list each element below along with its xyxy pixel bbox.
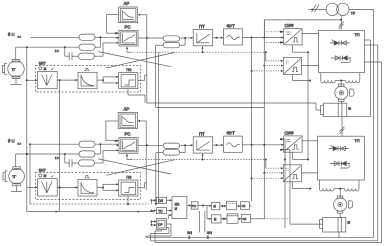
node U-set 2 xyxy=(8,139,22,146)
wire vertical K xyxy=(284,139,286,228)
tachogenerator TG2 xyxy=(3,167,24,186)
wire SIF2 output to TP2 xyxy=(302,140,318,142)
wire machine2 bottom xyxy=(338,232,340,238)
wire TO to OR xyxy=(167,210,173,212)
wire R1b to RS2 xyxy=(95,143,119,146)
capacitor C2 xyxy=(65,154,78,167)
wire tacho feedback 2 xyxy=(16,153,79,155)
wire AND2 to AMP2 xyxy=(221,218,227,220)
wire R1 to RS1 xyxy=(95,36,119,39)
block AR1 (АР) xyxy=(119,1,138,23)
filter F1 xyxy=(78,68,97,88)
svg-text:ФУТ: ФУТ xyxy=(227,23,236,28)
wire PT1 to FUT1 xyxy=(213,37,224,39)
svg-text:ЭН: ЭН xyxy=(187,231,192,235)
svg-text:ϑ U: ϑ U xyxy=(8,139,14,144)
svg-text:ПЗ: ПЗ xyxy=(126,68,132,72)
wire SIF1b inputs xyxy=(251,51,284,72)
svg-text:РС: РС xyxy=(125,132,131,137)
block BIT1 (БИТ dashed) xyxy=(35,61,140,92)
svg-text:ОЛ: ОЛ xyxy=(243,217,247,221)
wire PZ1 bottom xyxy=(128,89,145,103)
wire AMP1 to OUT1 xyxy=(237,205,241,207)
block OR (ИЛИ) xyxy=(172,197,187,219)
wire SR inputs xyxy=(151,220,157,226)
block FUT2 (ФУТ) xyxy=(224,131,243,153)
block OL xyxy=(156,197,166,203)
node K3 label xyxy=(55,49,59,53)
wire SIF1b bottom xyxy=(293,75,311,82)
wire OUT2 right xyxy=(251,218,291,220)
wire AR1 feedback left xyxy=(107,15,120,35)
wire SR to OR xyxy=(169,214,173,219)
block TP2 (ТП) xyxy=(318,136,365,180)
wire PZ2 bottom xyxy=(127,196,129,205)
block TO xyxy=(156,208,166,214)
block SIF1 (СИФ) xyxy=(284,23,302,45)
motor M2 xyxy=(334,189,353,214)
block AMP2 xyxy=(227,214,238,224)
resistor R3 xyxy=(79,53,95,59)
svg-text:ТГ: ТГ xyxy=(12,68,16,72)
block OUT2 xyxy=(242,214,251,222)
svg-text:РС: РС xyxy=(125,24,131,29)
resistor R1b xyxy=(79,141,95,147)
svg-text:Ш: Ш xyxy=(348,106,351,110)
wire BIT2 input xyxy=(27,186,38,188)
resistor R2b xyxy=(79,151,95,157)
wire bottom bus 1 xyxy=(146,237,374,239)
wire mid bus xyxy=(156,45,265,107)
svg-text:2: 2 xyxy=(207,235,209,239)
wire RS2 bottom input xyxy=(126,154,131,160)
wire machine1 right xyxy=(347,40,371,117)
block FUT1 (ФУТ) xyxy=(224,23,243,45)
wire RO fork xyxy=(198,205,212,220)
svg-text:И: И xyxy=(175,207,178,211)
block AMP1 xyxy=(227,201,237,210)
block PT1 (ПТ) xyxy=(193,24,213,46)
wire SIF1 inputs xyxy=(266,31,284,44)
machine EM2 xyxy=(319,213,350,232)
wire AND1 to AMP1 xyxy=(220,205,227,207)
block SIF2b (СИФ) xyxy=(283,165,301,182)
wire RS1 bottom input xyxy=(126,47,131,53)
supply mark xyxy=(309,5,327,13)
tachogenerator TG1 xyxy=(2,59,24,78)
wire PT2 to FUT2 xyxy=(213,144,224,146)
wire F1 to PZ1 xyxy=(97,76,119,84)
wire R5b down xyxy=(155,153,157,205)
wire PT2 bottom input xyxy=(201,154,203,161)
thyristor pair 1b xyxy=(331,56,351,63)
wire EN2 stem xyxy=(204,211,206,233)
wire SR loop3 xyxy=(155,230,162,243)
wire TG2 up xyxy=(15,154,17,167)
wire FUT1 to SIF1 xyxy=(242,36,283,38)
filter F2 xyxy=(78,176,97,196)
block OUT1 xyxy=(241,202,250,210)
svg-text:Ш: Ш xyxy=(347,221,350,225)
block BIT2 (БИТ dashed) xyxy=(35,169,140,200)
thyristor pair 2b xyxy=(330,161,350,168)
wire TO input xyxy=(151,210,157,212)
wire SIF2b output to TP2 xyxy=(302,172,318,174)
wire vertical x308 xyxy=(307,52,309,159)
svg-text:ЭН: ЭН xyxy=(207,231,212,235)
resistor R4 xyxy=(163,36,180,41)
wire setpoint 1 xyxy=(30,36,79,38)
svg-text:ПТ: ПТ xyxy=(199,131,205,136)
resistor R3b xyxy=(79,160,95,166)
wire machine2 left xyxy=(290,223,323,225)
svg-text:к з: к з xyxy=(55,156,59,160)
svg-text:ТР: ТР xyxy=(351,12,356,16)
wire OL to OR xyxy=(167,199,173,201)
wire R3b to RS2 xyxy=(95,149,120,163)
svg-text:к з: к з xyxy=(55,49,59,53)
node U-set 1 (ϑ Uз.с) xyxy=(8,32,22,39)
wire FUT2 to SIF2 xyxy=(242,144,283,146)
wire bottom bus 2 xyxy=(151,240,378,242)
block PT2 (ПТ) xyxy=(193,131,213,153)
wire sync to SIF xyxy=(264,20,341,38)
wire TR secondary down xyxy=(339,16,344,31)
wire R4b to PT2 xyxy=(180,144,194,146)
block PZ2 (ПЗ) xyxy=(119,176,138,196)
wire cross X2 xyxy=(98,159,174,175)
block SIF2 (СИФ) xyxy=(284,130,302,152)
wire tacho feedback 1 xyxy=(16,46,79,48)
wire DT1 to F1 xyxy=(57,79,78,81)
wire right bus 3 xyxy=(364,62,381,243)
svg-text:ПЗ: ПЗ xyxy=(126,176,132,180)
wire PZ2 output xyxy=(138,183,146,188)
sensor DT1 xyxy=(38,67,58,89)
svg-text:ТП: ТП xyxy=(355,33,360,37)
reactor L2 windings xyxy=(319,180,359,191)
svg-text:М: М xyxy=(44,174,47,178)
wire SIF2b bottom xyxy=(293,182,311,190)
wire R3 to RS1 in3 xyxy=(95,42,120,56)
block TP1 (ТП) xyxy=(319,30,365,72)
wire EN1 stem xyxy=(199,211,201,233)
wire R5b parallel xyxy=(156,145,185,152)
wire vertical C xyxy=(59,80,61,212)
ground TG1 xyxy=(11,79,22,85)
sensor DT2 xyxy=(38,174,58,196)
block AR2 (АР) xyxy=(118,107,137,129)
resistor R5b xyxy=(163,150,180,155)
svg-text:ТГ: ТГ xyxy=(12,175,16,179)
transformer TR (ТР) xyxy=(326,3,356,15)
wire RS1 in2 dot xyxy=(117,37,119,39)
thyristor pair 1a xyxy=(330,40,350,46)
wire R4 to PT1 xyxy=(180,37,194,39)
block SIF1b (СИФ) xyxy=(283,58,301,75)
wire F2 to PZ2 xyxy=(97,183,119,191)
wire vertical G xyxy=(251,38,253,202)
capacitor C1 xyxy=(65,47,78,60)
ground TG2 xyxy=(11,186,22,192)
wire armature 1 xyxy=(147,38,321,110)
wire TG1 up xyxy=(15,47,17,59)
wire SIF2a bottom xyxy=(293,152,309,160)
machine EM1 xyxy=(320,101,351,116)
svg-text:ФУТ: ФУТ xyxy=(227,131,236,136)
svg-text:И: И xyxy=(214,204,217,208)
wire OL input xyxy=(151,199,157,204)
resistor R2 xyxy=(79,44,95,50)
wire SIF1b output to TP1 xyxy=(302,65,319,67)
resistor R1 xyxy=(79,34,95,40)
svg-text:ТП: ТП xyxy=(355,139,360,143)
svg-text:ТО: ТО xyxy=(158,209,163,213)
svg-text:ϑ U: ϑ U xyxy=(8,32,14,37)
wire R2 junction xyxy=(95,37,100,47)
resistor R5 xyxy=(163,42,180,47)
wire vertical x158.5 xyxy=(158,52,160,204)
wire cross X1 xyxy=(98,52,174,68)
svg-text:з.с: з.с xyxy=(18,142,22,146)
svg-text:И: И xyxy=(214,217,217,221)
node K3 label 2 xyxy=(55,156,59,160)
wire OR to RO xyxy=(187,204,191,206)
wire SIF1a bottom xyxy=(293,45,309,53)
block PZ1 (ПЗ) xyxy=(119,68,138,88)
wire RS2 output xyxy=(138,144,163,146)
svg-text:СИФ: СИФ xyxy=(285,23,294,28)
wire AR2 feedback left xyxy=(106,121,119,142)
wire R2b junction xyxy=(95,144,100,154)
svg-text:БИТ: БИТ xyxy=(39,61,47,65)
resistor R4b xyxy=(163,143,180,148)
block RS2 (РС) xyxy=(119,132,138,154)
thyristor pair 2a xyxy=(329,145,349,151)
wire AR1 input right xyxy=(138,14,147,38)
wire right bus 2 xyxy=(364,45,377,241)
wire current feedback 1 (dotted) xyxy=(131,51,266,53)
wire vertical H xyxy=(263,20,265,219)
wire vertical A xyxy=(26,47,154,212)
svg-text:ОЛ: ОЛ xyxy=(242,204,246,208)
wire SR loop2 xyxy=(151,228,170,241)
svg-text:ОЛ: ОЛ xyxy=(158,199,163,203)
svg-text:АР: АР xyxy=(124,1,130,6)
block AND2 (И) xyxy=(212,215,222,223)
wire TR to right bus xyxy=(349,9,374,237)
wire machine1 down to TP2 xyxy=(340,117,345,137)
wire SR loop1 xyxy=(146,224,171,238)
wire bottom bus 3 xyxy=(155,242,382,244)
wire BIT1 input xyxy=(27,79,38,81)
wire setpoint 2 xyxy=(30,143,79,145)
wire AR2 input right xyxy=(138,120,147,190)
svg-text:БИТ: БИТ xyxy=(39,169,47,173)
wire OUT1 right xyxy=(250,205,252,207)
svg-text:РО: РО xyxy=(192,204,197,208)
svg-text:СР: СР xyxy=(158,223,162,227)
block AND1 (И) xyxy=(212,202,220,210)
svg-text:з.с: з.с xyxy=(18,35,22,39)
svg-text:М: М xyxy=(44,67,47,71)
svg-text:СИФ: СИФ xyxy=(285,130,294,135)
svg-text:АР: АР xyxy=(124,107,130,112)
wire PT1 bottom input xyxy=(201,46,203,53)
wire AMP2 to OUT2 xyxy=(238,218,242,220)
wire R5 parallel xyxy=(156,38,186,45)
node EN1 label xyxy=(187,231,192,239)
wire SIF2b inputs xyxy=(251,159,284,180)
block RS1 (РС) xyxy=(119,24,138,46)
wire PZ1 output xyxy=(138,75,147,80)
svg-text:ИЛ: ИЛ xyxy=(175,203,180,207)
wire SIF2 inputs xyxy=(280,138,290,151)
reactor L1 windings xyxy=(321,73,360,83)
wire vertical B xyxy=(29,143,149,204)
svg-text:ПТ: ПТ xyxy=(199,24,205,29)
block RO (РО) xyxy=(191,202,198,209)
wire current feedback 2 (dotted) xyxy=(131,159,266,161)
wire DT2 to F2 xyxy=(57,186,78,188)
node EN2 label xyxy=(207,231,212,239)
wire vertical L xyxy=(289,150,291,224)
wire SIF1 output to TP1 xyxy=(302,33,319,35)
wire RS1 output xyxy=(138,37,163,39)
motor M1 xyxy=(335,81,354,102)
block SR xyxy=(156,219,166,230)
svg-text:1: 1 xyxy=(188,235,190,239)
